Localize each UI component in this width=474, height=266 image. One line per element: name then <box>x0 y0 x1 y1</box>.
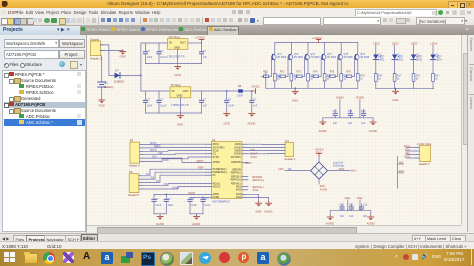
wire left feed <box>265 72 267 89</box>
svg-text:2N 3906: 2N 3906 <box>277 56 287 59</box>
svg-text:Header 6: Header 6 <box>129 164 140 168</box>
svg-text:10uF: 10uF <box>147 56 153 59</box>
svg-text:C?: C? <box>160 99 164 102</box>
svg-text:REF-: REF- <box>198 166 204 170</box>
ground AGND (C17 row right) <box>369 118 377 133</box>
svg-text:0.1uF: 0.1uF <box>155 204 162 207</box>
document tabs <box>80 26 109 35</box>
wire cap group1 bottom <box>154 213 166 215</box>
svg-text:CE0: CE0 <box>158 152 163 155</box>
svg-text:GND: GND <box>392 98 398 102</box>
svg-text:1nF: 1nF <box>349 215 354 218</box>
projects panel header sits left <box>0 26 87 36</box>
project row <box>4 50 59 59</box>
svg-text:1uF: 1uF <box>203 56 208 59</box>
svg-text:LED4: LED4 <box>431 42 438 46</box>
svg-text:10uF: 10uF <box>147 104 153 107</box>
svg-text:P5: P5 <box>130 139 134 143</box>
net labels left of U1 <box>197 159 205 170</box>
net labels P6 bundle <box>146 173 179 189</box>
row 4 <box>19 90 24 94</box>
battery BT1 9V <box>98 56 114 99</box>
LED D3 <box>392 45 404 73</box>
transistor Q6 2N3906 <box>355 43 370 74</box>
svg-text:D?: D? <box>115 69 119 73</box>
svg-text:2N 3906: 2N 3906 <box>344 56 354 59</box>
bridge (load cell full bridge) <box>311 162 328 179</box>
svg-text:Battery: Battery <box>105 85 114 89</box>
wire bottom cap rail <box>330 210 371 212</box>
svg-text:LED1: LED1 <box>373 42 380 46</box>
svg-text:REFP1(+): REFP1(+) <box>231 180 242 182</box>
right pin names <box>231 143 242 199</box>
svg-text:2N 3906: 2N 3906 <box>310 56 320 59</box>
capacitor C6 (5V out) <box>199 91 207 113</box>
net labels P5 bundle <box>150 142 169 162</box>
row 8 <box>19 114 24 118</box>
svg-text:REFP2(+): REFP2(+) <box>231 172 242 174</box>
red circle <box>219 252 230 263</box>
svg-text:LED2: LED2 <box>392 42 399 46</box>
wire bundle P6 to U1 <box>142 169 206 189</box>
svg-text:+12VDC: +12VDC <box>195 35 206 39</box>
svg-text:SYNC: SYNC <box>213 157 220 159</box>
wire reg2 gnd pin <box>179 98 181 113</box>
row 7 <box>9 109 14 114</box>
svg-text:R?3: R?3 <box>297 71 302 74</box>
svg-text:SCLK: SCLK <box>213 150 220 152</box>
svg-text:CS: CS <box>213 154 217 156</box>
capacitor C2 <box>157 43 167 64</box>
regulator VR2 7805 <box>170 83 191 107</box>
capacitor C3 (12V out) <box>199 43 207 64</box>
wire bridge right AIN2 <box>328 170 351 172</box>
ground AGND (C8) <box>248 112 256 126</box>
svg-text:AIN1: AIN1 <box>345 196 351 200</box>
svg-text:DVDD: DVDD <box>356 96 364 100</box>
svg-text:C17: C17 <box>333 110 338 113</box>
power port +12VDC (rail) <box>312 36 323 43</box>
left pin names <box>213 144 228 199</box>
telegram <box>199 252 211 264</box>
svg-text:AIN2: AIN2 <box>253 188 259 192</box>
svg-text:DOUT/RDY: DOUT/RDY <box>213 147 226 149</box>
svg-text:REFP1(+): REFP1(+) <box>253 178 265 182</box>
chrome <box>43 252 55 264</box>
connector P5 <box>129 139 143 168</box>
svg-text:AGND: AGND <box>234 149 241 152</box>
net labels right of U1 <box>245 148 264 192</box>
wire U1 AVDD pin to GND <box>245 194 259 203</box>
transistor Q4 2N3906 <box>321 43 336 74</box>
purple X (mixer) <box>63 252 74 263</box>
wire bundle P5 to U1 <box>143 144 206 162</box>
wire +12V rail (transistors) <box>275 42 358 44</box>
svg-text:100R: 100R <box>237 95 243 98</box>
capacitor C1 <box>143 43 152 64</box>
wire AGND rail <box>323 117 373 119</box>
svg-text:AD7190BRUZ: AD7190BRUZ <box>212 199 230 203</box>
ground GND (supply pin2) <box>120 50 126 59</box>
svg-text:AIN2: AIN2 <box>236 189 242 192</box>
capacitor C20 <box>339 204 344 218</box>
svg-text:AGND: AGND <box>192 222 200 226</box>
wire AIN1 to bridge <box>285 170 311 172</box>
svg-text:GND: GND <box>99 103 105 107</box>
vertical scrollbar <box>461 35 468 225</box>
resistor R62 1k (collector) <box>356 74 365 89</box>
resistor R51 (base) <box>328 57 339 78</box>
resistor R12 1k (collector) <box>273 74 282 89</box>
capacitor C16 <box>201 197 211 214</box>
svg-text:C22: C22 <box>363 204 368 207</box>
power port +12VDC <box>195 35 206 43</box>
svg-text:U1: U1 <box>212 138 216 142</box>
resistor R11 1k (LED) <box>374 74 383 89</box>
wire 12V out <box>188 42 202 44</box>
capacitor C4 <box>143 91 152 113</box>
svg-text:R?5: R?5 <box>330 71 335 74</box>
ground AGND (bottom row right) <box>367 211 375 226</box>
ground GND (transistor rail) <box>292 87 298 102</box>
svg-text:AGND: AGND <box>248 121 256 125</box>
svg-text:SCLK: SCLK <box>150 149 157 152</box>
svg-text:C?: C? <box>147 50 151 53</box>
svg-text:1k: 1k <box>416 78 419 81</box>
right vertical tab strip <box>467 35 474 232</box>
wire bridge top to +5VDC <box>318 156 320 162</box>
wire bridge bottom <box>318 179 320 184</box>
svg-text:1N5819: 1N5819 <box>114 79 124 83</box>
lock/green <box>121 256 130 263</box>
ground AGND (U1) <box>264 201 272 213</box>
svg-text:L7812CD2T-TR: L7812CD2T-TR <box>167 55 185 58</box>
svg-text:1k: 1k <box>360 78 363 81</box>
svg-text:C?: C? <box>203 50 207 53</box>
svg-text:LED4: LED4 <box>436 59 443 62</box>
svg-text:Header 5: Header 5 <box>128 193 139 197</box>
wire AVDD feed <box>154 193 206 195</box>
svg-text:C?: C? <box>191 198 195 201</box>
resistor R61 (base) <box>344 57 355 78</box>
svg-text:EXC+: EXC+ <box>316 150 323 154</box>
globe <box>160 252 174 266</box>
svg-text:IN: IN <box>172 89 175 93</box>
ground GND (LED rail) <box>392 88 398 102</box>
resistor R52 1k (collector) <box>340 74 349 89</box>
svg-text:0.1uF: 0.1uF <box>228 104 235 107</box>
svg-text:AGND: AGND <box>320 187 328 191</box>
svg-text:SIG-: SIG- <box>399 161 404 164</box>
net labels load cell <box>404 145 411 159</box>
svg-text:AGND: AGND <box>319 129 327 133</box>
row 9 selected blue <box>4 119 85 126</box>
right pin stubs <box>242 144 248 197</box>
wire ground rail row1 <box>146 63 202 65</box>
svg-text:5V Reg: 5V Reg <box>171 83 181 87</box>
explorer folder <box>24 253 38 264</box>
resistor R11 (base) <box>261 57 272 78</box>
svg-text:MCLK1: MCLK1 <box>213 183 221 185</box>
capacitor C21 <box>349 204 354 218</box>
svg-text:MOSI: MOSI <box>213 144 219 146</box>
capacitor C18 <box>348 110 353 126</box>
wire bundle U1 to P4 <box>248 144 282 154</box>
svg-text:Header 2: Header 2 <box>90 56 102 60</box>
svg-text:2N 3906: 2N 3906 <box>327 56 337 59</box>
svg-text:GND: GND <box>120 54 126 58</box>
svg-text:AIN1: AIN1 <box>236 185 242 188</box>
svg-text:C?: C? <box>147 99 151 102</box>
svg-text:SCLK: SCLK <box>251 155 258 159</box>
svg-text:DIN: DIN <box>251 148 256 152</box>
svg-text:Header 4: Header 4 <box>285 157 296 161</box>
svg-text:GND: GND <box>224 121 230 125</box>
Ps <box>141 252 155 266</box>
radio row <box>4 61 84 68</box>
power port +5VDC <box>251 85 260 94</box>
blue a <box>101 252 113 264</box>
ground AGND (bottom row left) <box>326 211 334 226</box>
svg-text:AVDD: AVDD <box>213 193 220 196</box>
wire U1 DVDD pin to AGND <box>245 197 269 203</box>
wire supply pin1 to diode <box>104 45 115 76</box>
svg-text:10uF: 10uF <box>191 204 197 207</box>
svg-text:1uF: 1uF <box>361 122 366 125</box>
diode D1 <box>114 69 124 84</box>
capacitor C19 <box>361 110 366 126</box>
svg-text:1k: 1k <box>397 78 400 81</box>
row 2 <box>9 79 14 84</box>
svg-text:1nF: 1nF <box>340 215 345 218</box>
svg-text:DOUT: DOUT <box>251 151 259 155</box>
net label EXC- / AGND <box>320 184 328 191</box>
svg-text:LED1: LED1 <box>378 59 385 62</box>
label Load Cell Full Bridge <box>333 161 345 167</box>
capacitor C8 (5V to AGND) <box>250 91 258 112</box>
svg-text:LED3: LED3 <box>411 42 418 46</box>
svg-text:R?4: R?4 <box>313 71 318 74</box>
connector P1 Supply <box>90 37 104 60</box>
resistor R13 1k (LED) <box>412 74 421 89</box>
ferrite bead FB1 <box>237 84 243 97</box>
capacitor C17 <box>333 110 338 126</box>
svg-text:C19: C19 <box>361 110 366 113</box>
row 3 <box>19 84 24 88</box>
junction C8 tap <box>251 90 253 92</box>
capacitor C13 <box>152 194 162 213</box>
ground GND (reg2) <box>177 114 183 127</box>
ground GND (C7) <box>224 112 230 126</box>
resistor R32 1k (collector) <box>307 74 316 89</box>
svg-text:R?2: R?2 <box>280 71 285 74</box>
ground DGND (group2) <box>192 214 200 226</box>
workspace row <box>4 39 59 48</box>
main vertical bus wire <box>140 43 142 91</box>
svg-text:LED3: LED3 <box>416 59 423 62</box>
svg-text:R?6: R?6 <box>346 71 351 74</box>
svg-text:OUT: OUT <box>180 41 186 45</box>
wire cap group2 bottom <box>190 213 203 215</box>
wire ground rail row2 <box>146 112 202 114</box>
svg-text:0.1uF: 0.1uF <box>160 56 167 59</box>
horizontal scrollbar <box>87 225 461 234</box>
capacitor C15 <box>188 197 197 213</box>
svg-text:C?: C? <box>203 99 207 102</box>
svg-text:AGND: AGND <box>367 221 375 225</box>
svg-text:EXC-: EXC- <box>399 170 405 173</box>
svg-text:AIN1: AIN1 <box>278 167 284 171</box>
svg-text:P1/REFIN2(-): P1/REFIN2(-) <box>213 169 227 171</box>
svg-text:0.1uF: 0.1uF <box>204 204 211 207</box>
svg-text:DRDY: DRDY <box>197 159 205 163</box>
svg-text:2N 3906: 2N 3906 <box>294 56 304 59</box>
svg-text:C?: C? <box>204 198 208 201</box>
svg-text:GND: GND <box>163 159 169 162</box>
svg-text:1uF: 1uF <box>203 104 208 107</box>
ground AGND (group1) <box>156 214 164 226</box>
wire AIN2 stub <box>357 196 363 211</box>
svg-text:EXC-: EXC- <box>404 156 410 159</box>
p orange circle <box>238 252 249 263</box>
junction <box>140 75 142 77</box>
Altium A <box>83 251 90 262</box>
svg-text:SIG+: SIG+ <box>351 169 357 173</box>
svg-text:1uF: 1uF <box>253 104 258 107</box>
svg-text:GND: GND <box>177 122 183 126</box>
svg-text:SYNC: SYNC <box>172 186 179 189</box>
svg-text:1uF: 1uF <box>348 122 353 125</box>
svg-text:C20: C20 <box>339 204 344 207</box>
wire 5V out rail <box>191 90 253 92</box>
svg-text:1k: 1k <box>435 78 438 81</box>
svg-text:LOAD CELL: LOAD CELL <box>417 142 432 146</box>
svg-text:3V3: 3V3 <box>152 156 157 159</box>
svg-text:FB: FB <box>238 84 242 88</box>
wire diode to main bus <box>120 74 141 76</box>
svg-text:AVDD: AVDD <box>336 96 344 100</box>
svg-text:MISO: MISO <box>154 145 160 148</box>
svg-text:C?: C? <box>228 99 232 102</box>
wire bottom rail (transistors) <box>266 87 358 89</box>
svg-text:GND: GND <box>177 94 183 98</box>
svg-text:MCLK2: MCLK2 <box>213 186 221 188</box>
ground AGND (C17 row left) <box>319 118 327 133</box>
wire AVDD stub <box>336 96 344 118</box>
svg-text:REFN1(-): REFN1(-) <box>231 183 241 185</box>
svg-text:ADY/RDY: ADY/RDY <box>231 156 242 159</box>
svg-text:GND: GND <box>255 210 261 214</box>
svg-text:AIN/PWN: AIN/PWN <box>231 161 241 164</box>
svg-text:IN: IN <box>169 41 172 45</box>
LED D2 <box>373 45 385 73</box>
resistor R12 1k (LED) <box>393 74 402 89</box>
wire rail 5V in <box>141 90 170 92</box>
capacitor C14 <box>164 194 173 214</box>
wire DVDD feed <box>190 196 206 198</box>
resistor R41 (base) <box>311 57 322 78</box>
row 6 selected gray <box>4 102 85 108</box>
resistor R21 (base) <box>278 57 289 78</box>
svg-text:C18: C18 <box>348 110 353 113</box>
svg-text:AIN3: AIN3 <box>236 193 242 196</box>
svg-text:1uF: 1uF <box>333 122 338 125</box>
photos <box>180 252 193 265</box>
connector P6 <box>128 170 142 197</box>
svg-text:+12VDC: +12VDC <box>312 36 323 40</box>
svg-text:AGND: AGND <box>156 222 164 226</box>
power port +5VDC (bridge) <box>315 148 324 156</box>
tree area <box>2 70 86 232</box>
resistor R42 1k (collector) <box>323 74 332 89</box>
regulator VR1 7812 <box>167 35 188 59</box>
svg-text:DVDD: DVDD <box>234 147 241 149</box>
svg-text:AIN4: AIN4 <box>236 196 242 199</box>
wires into load cell header <box>406 148 416 159</box>
svg-text:GND: GND <box>174 45 180 49</box>
svg-text:DRDY: DRDY <box>245 161 253 165</box>
svg-text:AGND: AGND <box>264 210 272 214</box>
svg-text:REFN2(-): REFN2(-) <box>231 176 241 178</box>
row 5 <box>9 97 14 102</box>
left pin stubs <box>206 144 212 197</box>
svg-text:AVDD: AVDD <box>235 143 242 146</box>
tray <box>395 254 398 260</box>
svg-text:AIN2: AIN2 <box>339 167 345 171</box>
svg-text:P4: P4 <box>285 139 289 143</box>
resistor R14 1k (LED) <box>432 74 441 89</box>
svg-text:DGND: DGND <box>234 154 241 156</box>
svg-text:1nF: 1nF <box>363 215 368 218</box>
wire supply pin2 to GND port <box>104 50 123 52</box>
svg-text:Supply: Supply <box>90 37 100 41</box>
resistor R22 1k (collector) <box>290 74 299 89</box>
svg-text:Header 4: Header 4 <box>419 162 430 166</box>
ground GND (U1) <box>255 201 261 213</box>
blue a 2 <box>257 252 269 264</box>
capacitor C22 <box>359 204 368 218</box>
LED D4 <box>411 45 423 73</box>
svg-text:12V Reg: 12V Reg <box>169 35 180 39</box>
svg-text:C?: C? <box>253 99 257 102</box>
transistor Q1 2N3906 <box>272 43 287 74</box>
capacitor C5 <box>157 91 167 113</box>
svg-text:C?: C? <box>168 198 172 201</box>
svg-text:AIN2: AIN2 <box>357 196 363 200</box>
resistor R31 (base) <box>295 57 306 78</box>
svg-text:1k: 1k <box>378 78 381 81</box>
ground GND (reg1) <box>175 65 181 77</box>
svg-text:OUT: OUT <box>183 89 189 93</box>
ground GND (battery) <box>99 98 105 107</box>
transistor Q5 2N3906 <box>338 43 353 74</box>
globe 2 <box>277 252 291 266</box>
windows flag <box>4 252 9 257</box>
wire reg1 gnd pin <box>177 49 179 63</box>
svg-text:GND: GND <box>175 73 181 77</box>
svg-text:P6: P6 <box>129 170 133 174</box>
transistor Q2 2N3906 <box>288 43 303 74</box>
svg-text:L7805CD2T-TR: L7805CD2T-TR <box>171 104 189 107</box>
row 1: RPiEX.PrjPCB <box>4 73 9 78</box>
svg-text:GND: GND <box>292 98 298 102</box>
svg-text:AGND: AGND <box>369 129 377 133</box>
svg-text:LED2: LED2 <box>397 59 404 62</box>
svg-text:BPDSW: BPDSW <box>232 169 241 171</box>
wire rail 12V in <box>141 42 168 44</box>
capacitor C7 (0.1uF on 5V rail) <box>225 90 235 111</box>
svg-text:APWN: APWN <box>213 161 220 164</box>
